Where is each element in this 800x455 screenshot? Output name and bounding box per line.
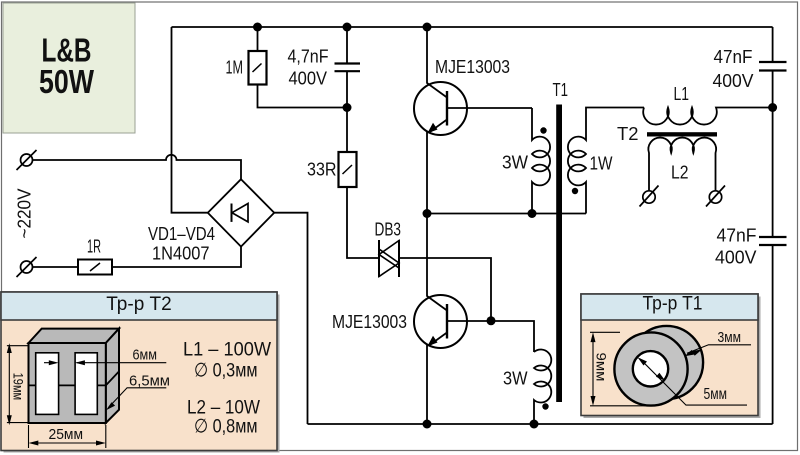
E-core top face: [29, 329, 120, 343]
toroid hole: [633, 351, 668, 386]
dimension 9mm line: [590, 332, 650, 406]
wire: Q2 base to winding: [447, 321, 534, 352]
resistor 1R: [78, 260, 112, 275]
wire: top rail: [172, 26, 773, 28]
junction: top rail / C1: [343, 23, 352, 32]
junction: bottom rail / Q2 emitter: [423, 420, 432, 429]
capacitor C1 4.7nF wires: [346, 27, 348, 108]
svg-text:1M: 1M: [226, 58, 244, 78]
svg-text:VD1–VD4: VD1–VD4: [148, 224, 215, 244]
toroid back ring: [630, 326, 703, 399]
dimension 19mm line: [7, 343, 28, 425]
wire: Q1 collector: [426, 27, 428, 84]
junction: mid rail / 3W winding: [528, 209, 537, 218]
svg-text:400V: 400V: [713, 71, 754, 91]
diac DB3: [379, 240, 399, 277]
svg-text:L2: L2: [671, 163, 689, 183]
E-core right face: [106, 329, 119, 423]
capacitor C3 47nF bottom plates: [759, 237, 787, 245]
terminal output left: [640, 186, 659, 207]
wire: 1M bottom to node: [258, 85, 348, 108]
svg-text:5мм: 5мм: [704, 386, 728, 403]
dimension 5mm leader: [638, 357, 748, 405]
svg-text:19мм: 19мм: [11, 373, 27, 401]
wire: bottom rail: [308, 423, 773, 425]
svg-text:∅ 0,3мм: ∅ 0,3мм: [194, 360, 258, 382]
bridge rectifier VD1-VD4 diamond: [208, 179, 274, 246]
svg-text:3W: 3W: [503, 369, 528, 389]
svg-text:T1: T1: [553, 80, 569, 100]
phase dot (3W lower): [542, 403, 548, 409]
svg-text:400V: 400V: [289, 69, 328, 89]
wire: left drop from top rail to bridge left corner: [172, 27, 208, 213]
svg-text:33R: 33R: [307, 160, 337, 180]
terminal output right: [706, 186, 725, 207]
resistor 1M: [249, 51, 267, 85]
svg-text:MJE13003: MJE13003: [435, 57, 510, 77]
svg-text:3мм: 3мм: [718, 330, 742, 346]
svg-text:Тр-р T1: Тр-р T1: [643, 293, 703, 315]
terminal input bottom: [17, 257, 37, 277]
transformer T1 core: [556, 105, 562, 403]
winding 1W (feedback of T1): [568, 108, 644, 214]
svg-text:~220V: ~220V: [15, 189, 35, 239]
panel Tr-r T2 shadow: [4, 295, 280, 453]
svg-text:MJE13003: MJE13003: [332, 312, 407, 332]
svg-text:1R: 1R: [87, 237, 101, 257]
svg-text:T2: T2: [617, 124, 639, 144]
wire: mid rail: [427, 213, 586, 215]
E-core window left: [36, 353, 59, 415]
junction: bottom rail / 3W lower winding: [530, 420, 539, 429]
dimension 6,5mm leader: [106, 388, 166, 410]
transistor Q2 MJE13003: [414, 295, 467, 348]
svg-text:1W: 1W: [590, 154, 613, 174]
phase dot (1W): [572, 188, 578, 194]
svg-text:9мм: 9мм: [594, 353, 609, 382]
junction: mid node Q1 emitter / Q2 collector: [423, 209, 432, 218]
wire: input bottom left segment: [33, 266, 79, 268]
winding 3W (lower primary of T1): [534, 350, 551, 425]
winding L2 (T2 secondary): [648, 138, 716, 191]
svg-text:47nF: 47nF: [717, 226, 757, 246]
svg-text:3W: 3W: [502, 153, 528, 173]
panel Tr-r T1 shadow: [584, 297, 761, 419]
terminal input top: [17, 150, 37, 170]
junction: 1M-C1-33R node: [343, 103, 352, 112]
dimension 6mm arrows: [44, 360, 166, 365]
transistor Q1 MJE13003: [414, 82, 467, 135]
junction: diac / Q2 base: [487, 316, 496, 325]
wire: input bottom right segment to bridge bottom: [112, 247, 241, 267]
svg-text:Тр-р T2: Тр-р T2: [106, 293, 172, 315]
toroid front ring: [614, 332, 687, 405]
svg-text:6,5мм: 6,5мм: [129, 373, 170, 390]
svg-text:L1 – 100W: L1 – 100W: [183, 339, 272, 361]
svg-text:6мм: 6мм: [133, 347, 158, 364]
svg-text:DB3: DB3: [375, 220, 402, 240]
wire: diac to Q2 base node: [399, 258, 491, 321]
svg-text:400V: 400V: [715, 248, 757, 268]
transformer T2 core: [647, 132, 717, 136]
svg-text:47nF: 47nF: [714, 47, 753, 67]
junction: top rail / 1M: [253, 23, 262, 32]
capacitor C2 47nF top plates: [759, 62, 787, 71]
svg-text:L1: L1: [674, 84, 690, 104]
wire: input top with hop over left drop: [33, 155, 242, 179]
svg-text:4,7nF: 4,7nF: [288, 47, 329, 67]
panel Tr-r T1: [581, 293, 758, 416]
E-core split lines: [29, 371, 120, 385]
junction: top rail / Q1 collector: [423, 23, 432, 32]
phase dot (3W upper): [540, 127, 546, 133]
wire: Q2 collector from mid node: [426, 214, 428, 297]
wire: 33R down and right to diac: [347, 187, 379, 258]
svg-text:50W: 50W: [39, 63, 95, 100]
svg-text:1N4007: 1N4007: [152, 244, 210, 264]
svg-text:25мм: 25мм: [49, 426, 84, 443]
title box L&B 50W: [3, 3, 135, 133]
resistor 33R: [339, 152, 357, 187]
dimension 3mm leader: [685, 345, 752, 356]
E-core window right: [75, 353, 97, 415]
capacitor C1 4.7nF plates: [335, 64, 361, 72]
wire: Q1 base to winding: [447, 107, 532, 109]
panel Tr-r T2: [1, 292, 277, 451]
wire: Q2 emitter to bottom rail: [426, 345, 428, 424]
wire: Q1 emitter down to mid node: [426, 132, 428, 214]
wire: bridge right corner to bottom rail: [274, 213, 307, 424]
winding 3W (upper primary of T1): [532, 108, 550, 214]
E-core front face: [29, 343, 106, 423]
wire: node down to 33R: [346, 108, 348, 153]
dimension 25mm line: [29, 425, 106, 448]
wire: 1M branch top: [257, 27, 259, 51]
junction: L1 / right rail: [768, 103, 777, 112]
svg-text:∅ 0,8мм: ∅ 0,8мм: [194, 416, 258, 438]
diode symbol inside bridge: [232, 204, 249, 222]
inductor L1 (T2 primary): [643, 108, 772, 125]
wire: right vertical rail: [772, 27, 774, 424]
